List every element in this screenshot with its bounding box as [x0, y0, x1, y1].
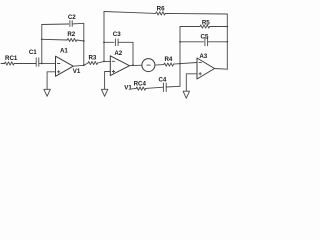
- A2 minus mark: [112, 60, 115, 62]
- resistor R2: [42, 38, 84, 41]
- resistor R5: [180, 25, 227, 28]
- ground (A2): [101, 89, 107, 96]
- wire: R4 to A3 inverting input: [173, 63, 197, 65]
- minus mark inside circle: [147, 64, 150, 66]
- svg-text:C1: C1: [29, 49, 37, 56]
- resistor R6: [104, 12, 227, 15]
- op-amp A1: [56, 56, 74, 76]
- svg-text:A1: A1: [60, 48, 68, 55]
- wire: C1 to A1 inverting input: [39, 62, 56, 64]
- wire: A1 output run: [73, 64, 84, 67]
- svg-text:C2: C2: [68, 14, 76, 21]
- A3 minus mark: [199, 62, 202, 64]
- svg-text:R5: R5: [202, 20, 210, 27]
- resistor R4: [164, 63, 174, 66]
- wire: riser from inverting node up to feedback: [41, 25, 43, 64]
- capacitor C4: [163, 83, 166, 92]
- wire: RC1 to C1: [15, 63, 37, 65]
- node R5 right tap: [226, 26, 228, 28]
- svg-text:R2: R2: [67, 31, 75, 38]
- wire: stage-3 feedback right rail: [226, 14, 228, 69]
- op-amp A2: [110, 56, 129, 76]
- resistor RC4: [136, 87, 146, 90]
- wire: riser from A2 input node up to R6: [103, 12, 105, 62]
- op-amp A3: [197, 58, 215, 79]
- svg-text:A2: A2: [114, 50, 122, 57]
- node C5 left tap: [179, 41, 181, 43]
- wire: A2 plus input to ground: [105, 72, 111, 90]
- wire: A1 plus input to ground: [47, 72, 55, 90]
- svg-text:V1: V1: [124, 84, 132, 91]
- wire: feedback right rail down to A1 output: [83, 23, 85, 65]
- wire: A2 output to summing circle: [129, 64, 142, 67]
- wire: C4 to stage-3 left rail: [166, 85, 180, 88]
- wire: input lead into RC1: [1, 63, 5, 65]
- svg-text:C3: C3: [113, 31, 121, 38]
- node R4 line crosses stage-3 left rail: [179, 63, 181, 65]
- wire: circle to R4: [155, 64, 164, 67]
- wire: output run toward R3: [84, 63, 88, 65]
- svg-text:A3: A3: [199, 53, 207, 60]
- node C5 right tap: [226, 41, 228, 43]
- svg-text:R3: R3: [88, 54, 96, 61]
- resistor RC1: [5, 62, 15, 65]
- capacitor C3: [104, 39, 133, 46]
- wire: V1 terminal lead into RC4: [132, 88, 136, 90]
- wire: R3 to A2 inverting input: [98, 61, 111, 63]
- wire: stage-3 feedback left rail: [179, 27, 181, 87]
- wire: A3 output to right rail: [215, 68, 228, 71]
- A1 plus mark: [57, 71, 60, 74]
- svg-text:V1: V1: [73, 68, 81, 75]
- A1 minus mark: [57, 63, 60, 65]
- svg-text:C4: C4: [158, 76, 166, 83]
- capacitor C2: [42, 21, 84, 27]
- node A1 inverting input junction: [41, 63, 43, 65]
- node R2 right tee: [83, 40, 85, 42]
- wire: A3 plus input to ground: [186, 74, 197, 91]
- capacitor C5: [180, 38, 227, 46]
- capacitor C1: [36, 58, 39, 66]
- svg-text:RC1: RC1: [5, 55, 18, 62]
- summing circle (source symbol): [142, 59, 155, 72]
- svg-text:R4: R4: [164, 56, 172, 63]
- svg-text:RC4: RC4: [134, 81, 147, 88]
- ground (A3): [183, 91, 189, 98]
- ground (A1): [44, 89, 50, 96]
- wire: RC4 to C4: [146, 87, 164, 88]
- resistor R3: [88, 61, 98, 64]
- A3 plus mark: [199, 73, 202, 76]
- node A1 output junction: [83, 64, 85, 66]
- wire: C3 right rail down to A2 output: [132, 42, 134, 65]
- node C3 tap junction: [103, 41, 105, 43]
- A2 plus mark: [112, 70, 115, 73]
- svg-text:R6: R6: [157, 6, 165, 13]
- node R2 left tee: [41, 38, 43, 40]
- svg-text:C5: C5: [201, 34, 209, 41]
- node C3 to output junction: [132, 64, 134, 66]
- node A2 inverting input junction: [103, 61, 105, 63]
